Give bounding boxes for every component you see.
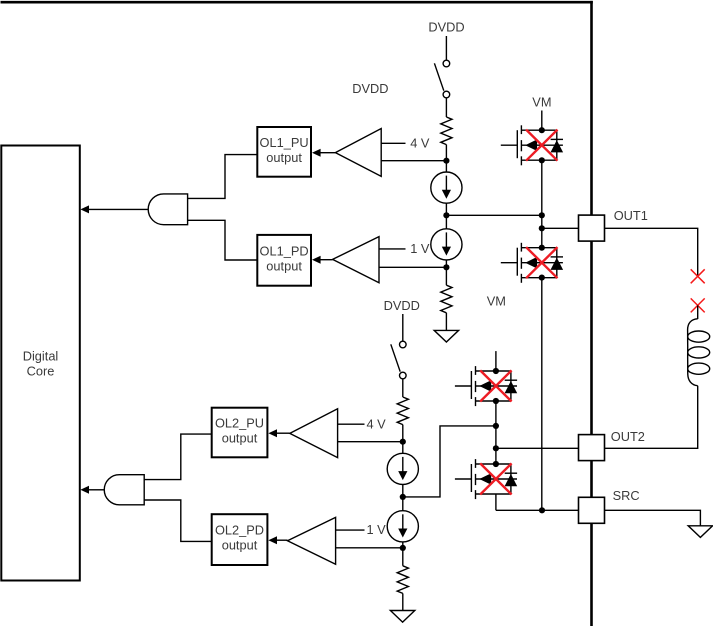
svg-text:DVDD: DVDD [384, 298, 420, 313]
svg-text:OL1_PU: OL1_PU [260, 135, 309, 150]
svg-text:1 V: 1 V [367, 522, 387, 537]
svg-text:output: output [222, 538, 258, 553]
svg-text:Core: Core [27, 364, 55, 379]
svg-text:DVDD: DVDD [428, 19, 464, 34]
svg-text:1 V: 1 V [410, 241, 430, 256]
svg-text:4 V: 4 V [410, 136, 430, 151]
svg-text:output: output [266, 150, 302, 165]
svg-text:output: output [222, 431, 258, 446]
svg-text:4 V: 4 V [367, 416, 387, 431]
svg-text:OL2_PD: OL2_PD [215, 523, 264, 538]
svg-text:OUT2: OUT2 [611, 429, 645, 444]
svg-text:OUT1: OUT1 [614, 208, 648, 223]
svg-text:OL1_PD: OL1_PD [260, 243, 309, 258]
svg-text:VM: VM [532, 95, 551, 110]
svg-text:SRC: SRC [613, 488, 640, 503]
svg-text:output: output [266, 258, 302, 273]
svg-text:DVDD: DVDD [352, 81, 388, 96]
svg-text:Digital: Digital [23, 348, 59, 363]
svg-text:OL2_PU: OL2_PU [215, 416, 264, 431]
svg-text:VM: VM [487, 294, 506, 309]
